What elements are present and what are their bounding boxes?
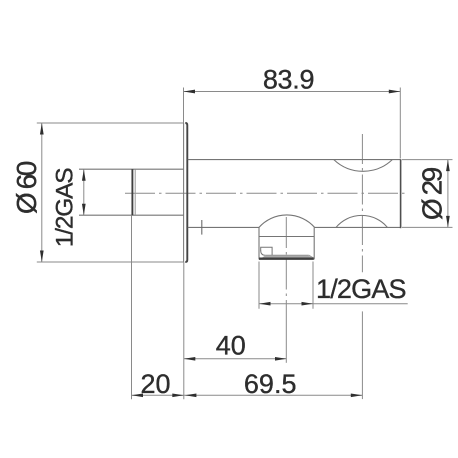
svg-text:40: 40 xyxy=(216,331,246,361)
tube bottom edge left segment xyxy=(188,226,259,228)
outlet bottom rim band xyxy=(261,256,314,259)
outlet notch rounded corner xyxy=(261,251,266,256)
svg-text:69.5: 69.5 xyxy=(244,369,297,399)
wire: vertical centerline of outlet xyxy=(285,217,287,305)
dimension 1/2GAS bottom xyxy=(259,262,408,309)
outlet right side xyxy=(313,227,315,259)
wire: extension line from ball center down to 69.5 dimension xyxy=(361,311,363,399)
svg-text:20: 20 xyxy=(140,369,170,399)
svg-text:1/2GAS: 1/2GAS xyxy=(316,274,406,304)
dimension 40 bottom xyxy=(184,358,287,360)
tube bottom edge right segment xyxy=(315,226,401,228)
wire: vertical centerline of ball end xyxy=(361,134,363,272)
svg-text:83.9: 83.9 xyxy=(263,64,314,94)
flange wall plate right face (thick edge with rounded corners) xyxy=(185,123,187,262)
sphere transition arc lower xyxy=(336,215,388,227)
dimension 83.9 top xyxy=(184,88,401,159)
dimension 1/2GAS left xyxy=(83,169,85,215)
wire: horizontal centerline of body xyxy=(125,192,408,194)
svg-text:Ø 60: Ø 60 xyxy=(11,161,42,214)
dimension D60 left xyxy=(37,123,184,262)
outlet dome (cylinder intersection curve) xyxy=(259,215,315,227)
flange wall plate left face xyxy=(183,123,185,262)
dimension D29 right xyxy=(402,160,453,228)
svg-text:Ø 29: Ø 29 xyxy=(416,167,447,220)
sphere transition arc upper xyxy=(334,160,393,172)
tick mark on tube bottom edge xyxy=(201,220,203,235)
dimension 20 and 69.5 bottom xyxy=(132,215,363,399)
connector left end face (chamfer double line) xyxy=(131,169,133,215)
connector 1/2GAS male inlet body xyxy=(79,169,184,215)
tube right end face xyxy=(400,159,402,228)
svg-text:1/2GAS: 1/2GAS xyxy=(51,168,78,247)
tube top edge xyxy=(188,159,400,161)
outlet left side xyxy=(258,227,260,259)
outlet collar line xyxy=(259,236,314,238)
outlet notch window xyxy=(261,247,272,255)
outlet bottom rim thick edge xyxy=(259,258,314,260)
